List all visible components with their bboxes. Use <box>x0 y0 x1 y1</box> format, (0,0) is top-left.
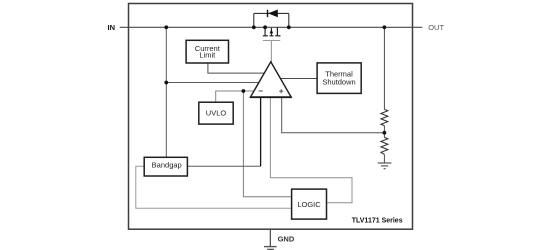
svg-text:OUT: OUT <box>428 23 444 32</box>
svg-text:Shutdown: Shutdown <box>322 78 355 87</box>
svg-text:LOGIC: LOGIC <box>297 200 321 209</box>
svg-text:TLV1171 Series: TLV1171 Series <box>352 218 403 225</box>
svg-text:Bandgap: Bandgap <box>152 160 182 169</box>
svg-text:GND: GND <box>278 234 295 243</box>
svg-text:UVLO: UVLO <box>206 109 227 118</box>
svg-text:IN: IN <box>108 23 116 32</box>
svg-text:Limit: Limit <box>199 51 216 60</box>
